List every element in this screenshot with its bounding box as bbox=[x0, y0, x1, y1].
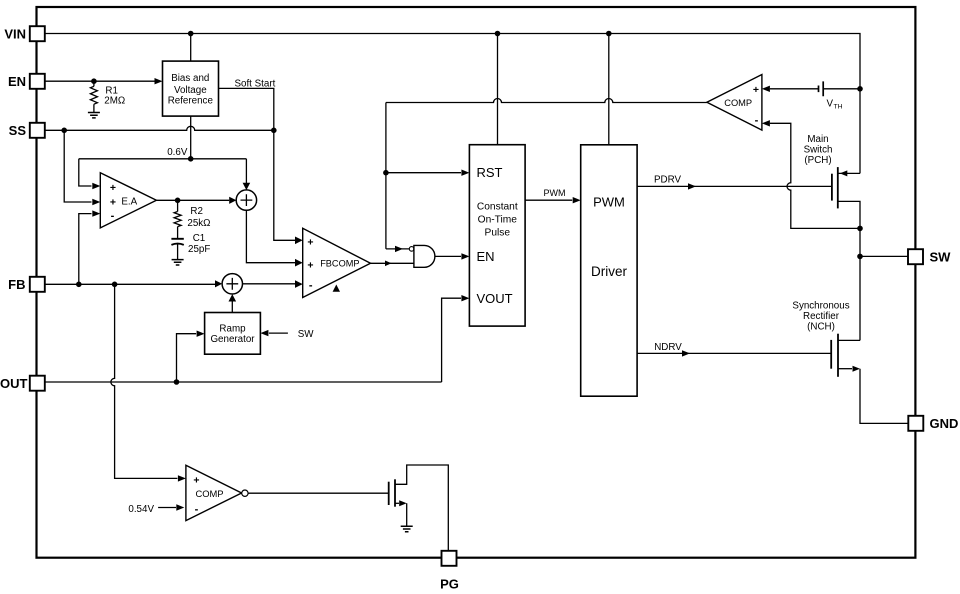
node junction EN/R1 bbox=[91, 78, 97, 84]
node junction VIN/one-shot bbox=[495, 31, 501, 37]
svg-text:Driver: Driver bbox=[591, 264, 628, 279]
wire summing node 1 to FBCOMP second input bbox=[246, 210, 295, 262]
svg-text:EN: EN bbox=[477, 249, 495, 264]
svg-text:On-Time: On-Time bbox=[478, 215, 518, 226]
svg-text:SW: SW bbox=[930, 250, 952, 265]
svg-text:FBCOMP: FBCOMP bbox=[320, 259, 359, 269]
node junction FB/PG comparator bbox=[112, 282, 118, 288]
svg-text:COMP: COMP bbox=[724, 98, 752, 108]
svg-text:OUT: OUT bbox=[0, 376, 28, 391]
node junction OUT/ramp input bbox=[174, 379, 180, 385]
resistor R2 bbox=[177, 200, 179, 211]
svg-text:PDRV: PDRV bbox=[654, 174, 682, 185]
svg-text:VIN: VIN bbox=[4, 26, 26, 41]
AND gate U1 bbox=[414, 245, 435, 267]
svg-text:C1: C1 bbox=[193, 233, 206, 244]
node junction VIN/bias bbox=[188, 31, 194, 37]
svg-text:(NCH): (NCH) bbox=[807, 322, 835, 333]
svg-text:-: - bbox=[309, 279, 313, 291]
wire SW sense to COMP inverting input bbox=[762, 120, 770, 126]
svg-text:+: + bbox=[110, 182, 116, 194]
svg-text:COMP: COMP bbox=[195, 488, 223, 499]
wire VTH to COMP non-inverting input bbox=[762, 86, 770, 92]
wire FB down to PG comparator input bbox=[111, 284, 178, 478]
svg-text:+: + bbox=[753, 84, 759, 96]
svg-text:SW: SW bbox=[298, 329, 315, 340]
wire PG comparator output to PG transistor gate bbox=[248, 492, 389, 494]
resistor R1 bbox=[93, 81, 95, 86]
wire soft start from bias box down to FBCOMP input bbox=[219, 88, 296, 240]
ground below C1 bbox=[172, 260, 184, 265]
svg-text:Switch: Switch bbox=[804, 145, 833, 156]
wire 0.6V to summing node 1 top bbox=[245, 159, 247, 184]
svg-text:-: - bbox=[111, 210, 115, 222]
pin EN bbox=[30, 74, 45, 89]
svg-text:TH: TH bbox=[834, 104, 843, 111]
wire into AND gate inverted input bbox=[386, 248, 410, 250]
svg-text:25pF: 25pF bbox=[188, 244, 210, 255]
wire 0.54V to PG comparator inverting input bbox=[158, 507, 176, 509]
comparator COMP (current sense) bbox=[707, 75, 762, 131]
node junction SS/EA branch bbox=[61, 128, 67, 134]
wire OUT pin line to VOUT input bbox=[45, 381, 441, 383]
wire ramp generator output to summing node 2 bbox=[231, 301, 233, 312]
wire SS to EA second input bbox=[64, 130, 91, 202]
wire 0.6V reference line bbox=[79, 158, 247, 160]
svg-text:-: - bbox=[195, 504, 199, 516]
wire SW input to ramp generator bbox=[269, 332, 288, 334]
svg-text:25kΩ: 25kΩ bbox=[187, 218, 210, 229]
block Ramp Generator bbox=[205, 313, 261, 355]
svg-text:Pulse: Pulse bbox=[485, 227, 511, 238]
pin GND bbox=[908, 416, 923, 431]
svg-text:Constant: Constant bbox=[477, 201, 518, 212]
wire bias box bottom to 0.6V reference line bbox=[190, 116, 192, 159]
wire NDRV to sync rectifier gate bbox=[637, 352, 831, 354]
wire summing node 2 to FBCOMP inverting input bbox=[243, 283, 296, 285]
node junction FB/EA feedback bbox=[76, 282, 82, 288]
svg-text:PG: PG bbox=[440, 577, 459, 592]
node junction EA output/R2 bbox=[175, 198, 181, 204]
node junction COMP-output/RST bbox=[383, 170, 389, 176]
wire OUT to ramp generator input bbox=[177, 334, 197, 382]
pin SS bbox=[30, 123, 45, 138]
svg-text:Voltage: Voltage bbox=[174, 85, 207, 96]
svg-text:0.54V: 0.54V bbox=[128, 504, 154, 515]
transistor Q1 main switch PCH bbox=[831, 174, 833, 201]
ground below R1 bbox=[88, 113, 100, 118]
svg-text:V: V bbox=[827, 99, 834, 110]
wire FB to EA inverting input bbox=[79, 214, 92, 285]
node junction VIN/VTH bbox=[857, 86, 863, 92]
pin OUT bbox=[30, 376, 45, 391]
wire PDRV to main switch gate bbox=[637, 185, 832, 187]
wire FBCOMP output to AND gate bbox=[371, 262, 414, 264]
pin VIN bbox=[30, 26, 45, 41]
wire bias box top supply bbox=[190, 34, 192, 62]
svg-text:GND: GND bbox=[930, 416, 959, 431]
capacitor C1 bbox=[171, 238, 183, 240]
svg-text:SS: SS bbox=[9, 123, 27, 138]
pin FB bbox=[30, 277, 45, 292]
battery VTH threshold bbox=[819, 81, 824, 96]
wire one-shot top supply bbox=[497, 34, 499, 145]
wire 0.6V to EA non-inverting input bbox=[79, 159, 92, 186]
svg-text:+: + bbox=[307, 236, 313, 248]
ground below PG transistor bbox=[401, 526, 413, 531]
wire PWM one-shot to driver bbox=[525, 199, 572, 201]
block PWM Driver bbox=[581, 145, 637, 396]
svg-text:Synchronous: Synchronous bbox=[792, 301, 849, 312]
svg-text:E.A: E.A bbox=[121, 196, 137, 207]
wire driver top supply bbox=[608, 34, 610, 145]
block Constant On-Time Pulse bbox=[469, 145, 525, 326]
wire EN to bias box bbox=[45, 80, 155, 82]
svg-text:Ramp: Ramp bbox=[219, 324, 246, 335]
svg-text:R2: R2 bbox=[190, 206, 203, 217]
clock marker inside FBCOMP bbox=[333, 285, 340, 292]
transistor Q2 synchronous rectifier NCH bbox=[830, 340, 832, 369]
wire SW node bbox=[859, 228, 861, 340]
wire FB pin line to summing node 2 bbox=[45, 283, 215, 285]
svg-text:RST: RST bbox=[477, 165, 503, 180]
svg-text:PWM: PWM bbox=[544, 188, 566, 198]
pin PG bbox=[442, 551, 457, 566]
svg-text:FB: FB bbox=[8, 277, 25, 292]
svg-text:PWM: PWM bbox=[593, 194, 625, 209]
wire SS pin line bbox=[45, 126, 274, 130]
PG comparator output bubble bbox=[242, 490, 248, 496]
svg-text:(PCH): (PCH) bbox=[804, 155, 831, 166]
wire COMP output to RST and AND gate bbox=[386, 99, 707, 103]
op-amp E.A. error amplifier bbox=[100, 173, 156, 228]
comparator FBCOMP bbox=[303, 228, 371, 297]
node junction 0.6V/bias bbox=[188, 156, 194, 162]
AND gate inverting bubble bbox=[409, 247, 414, 252]
svg-text:+: + bbox=[193, 475, 199, 487]
svg-text:Generator: Generator bbox=[210, 334, 255, 345]
svg-text:NDRV: NDRV bbox=[654, 342, 682, 353]
node junction SS/soft-start bbox=[271, 128, 277, 134]
svg-text:EN: EN bbox=[8, 74, 26, 89]
wire EA output bbox=[156, 199, 229, 201]
wire SW node to SW pin bbox=[860, 255, 908, 257]
node junction VIN/driver bbox=[606, 31, 612, 37]
pin SW bbox=[908, 249, 923, 264]
wire AND gate output to EN bbox=[435, 255, 461, 257]
svg-text:Bias and: Bias and bbox=[171, 73, 209, 84]
svg-text:2MΩ: 2MΩ bbox=[104, 96, 125, 107]
svg-text:0.6V: 0.6V bbox=[167, 147, 188, 158]
wire VIN down to main switch source bbox=[859, 89, 861, 174]
block Bias and Voltage Reference bbox=[163, 61, 219, 116]
svg-text:Main: Main bbox=[807, 134, 828, 145]
node junction SW/COMP sense bbox=[857, 226, 863, 232]
wire RST input bbox=[386, 172, 461, 174]
svg-text:+: + bbox=[110, 197, 116, 209]
comparator COMP power good bbox=[186, 465, 242, 520]
summing node 2 (FB + ramp) bbox=[222, 274, 242, 294]
svg-text:Reference: Reference bbox=[168, 95, 214, 106]
summing node 1 (0.6V + EA) bbox=[236, 190, 256, 210]
node junction SW/pin bbox=[857, 254, 863, 260]
svg-text:+: + bbox=[307, 259, 313, 271]
wire VIN rail from VIN pin to right side and down to VTH node bbox=[45, 34, 860, 89]
svg-text:-: - bbox=[755, 115, 759, 127]
transistor Q3 power good open drain bbox=[388, 482, 390, 505]
svg-text:Soft Start: Soft Start bbox=[234, 79, 275, 90]
svg-text:Rectifier: Rectifier bbox=[803, 311, 840, 322]
svg-text:VOUT: VOUT bbox=[477, 291, 513, 306]
